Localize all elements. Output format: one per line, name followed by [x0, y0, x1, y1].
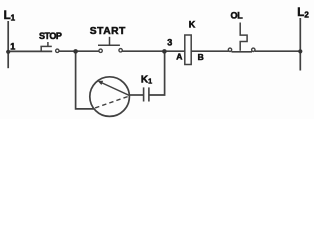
wire contact K1 to node 3 — [149, 51, 164, 95]
svg-text:OL: OL — [231, 11, 244, 21]
svg-text:B: B — [198, 52, 204, 62]
motor dashed line — [94, 97, 128, 109]
svg-text:L1: L1 — [4, 10, 16, 23]
pushbutton STOP (NC) — [40, 42, 59, 53]
coil K box — [185, 35, 191, 65]
wire motor to contact K1 — [129, 94, 143, 96]
wire OL to L2 — [255, 50, 300, 52]
wire coil K to OL — [191, 50, 229, 52]
pushbutton START (NO) — [98, 37, 122, 53]
wire STOP to START — [59, 50, 99, 52]
wire branch vertical from node A — [76, 51, 94, 109]
svg-text:1: 1 — [10, 42, 15, 52]
wire L1 to STOP — [8, 50, 52, 52]
svg-text:START: START — [90, 26, 126, 37]
node 1 junction dot on L1 — [6, 50, 10, 54]
wire OL link — [232, 51, 253, 53]
node A junction dot — [73, 49, 78, 54]
node 3 junction dot — [162, 49, 167, 54]
rail L2 — [299, 18, 301, 71]
wire START to node 3 — [122, 50, 184, 52]
svg-text:L2: L2 — [297, 7, 309, 20]
overload contact OL — [228, 23, 255, 52]
motor symbol circle — [90, 77, 130, 117]
contact K1 plates — [144, 87, 149, 101]
svg-text:STOP: STOP — [39, 31, 62, 41]
svg-text:3: 3 — [167, 38, 172, 48]
svg-text:A: A — [176, 51, 182, 61]
svg-text:K: K — [189, 19, 196, 29]
junction dot on L2 — [298, 49, 302, 53]
motor arrow (solid pointer) — [101, 82, 129, 95]
rail L1 — [7, 21, 9, 68]
svg-text:K1: K1 — [141, 75, 152, 86]
